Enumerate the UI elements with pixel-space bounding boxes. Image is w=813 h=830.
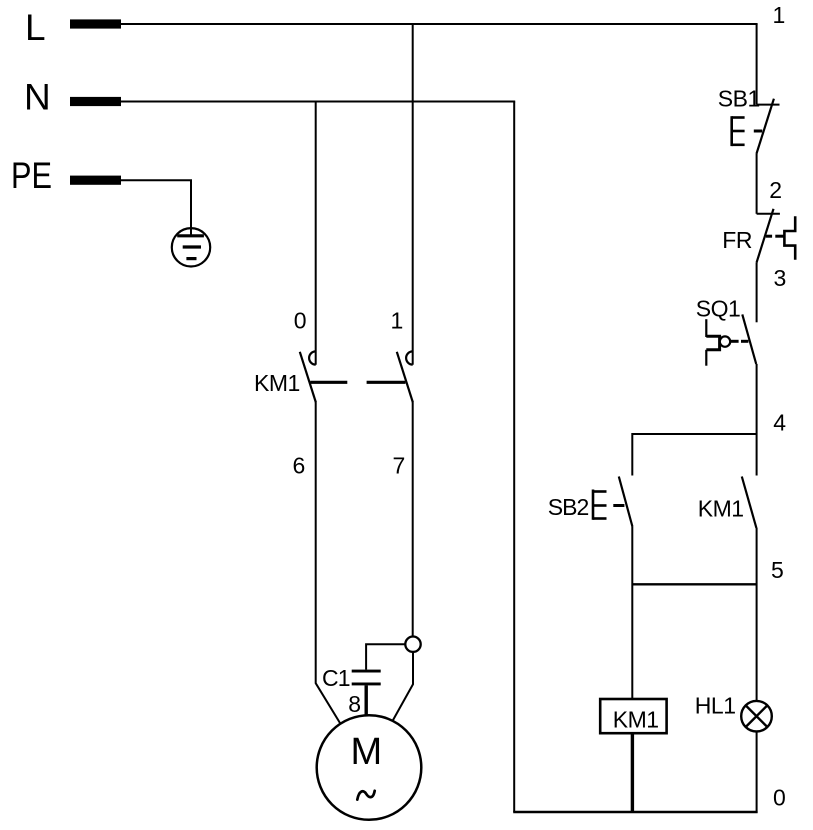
svg-text:L: L	[25, 7, 46, 48]
svg-text:SB1: SB1	[718, 86, 760, 112]
svg-text:8: 8	[348, 691, 361, 717]
svg-text:KM1: KM1	[613, 707, 659, 733]
terminal bar L	[70, 19, 121, 28]
svg-text:0: 0	[773, 785, 786, 811]
svg-text:1: 1	[773, 2, 786, 28]
wire bottom bus	[513, 811, 757, 813]
wire N bus	[121, 101, 515, 103]
contactor KM1 main contact left arc	[309, 351, 316, 364]
thermal relay FR heater element	[784, 216, 795, 260]
wire L bus to contact pole 1	[412, 24, 414, 365]
svg-text:3: 3	[774, 265, 787, 291]
wire capacitor to motor	[365, 685, 368, 715]
svg-text:6: 6	[293, 453, 306, 479]
svg-text:SB2: SB2	[548, 494, 589, 520]
svg-text:C1: C1	[322, 665, 350, 691]
svg-text:7: 7	[393, 453, 406, 479]
mechanical linkage dashes	[310, 381, 405, 384]
wire contact left to motor	[316, 402, 341, 723]
svg-text:N: N	[24, 76, 51, 117]
pushbutton SB1 NC contact	[757, 99, 780, 154]
wire N bus down to bottom bus	[513, 102, 515, 813]
wire aux contact to lamp	[756, 528, 758, 701]
node junction circle	[405, 637, 420, 652]
thermal relay FR NC contact	[757, 209, 780, 263]
svg-text:2: 2	[769, 177, 782, 203]
wire L bus	[121, 23, 758, 25]
thermal relay FR link dashes	[766, 235, 785, 238]
svg-text:PE: PE	[11, 155, 52, 196]
pushbutton SB2 actuator	[593, 490, 624, 520]
wire SQ1 to node 4 and aux contact	[756, 364, 758, 476]
wire N bus to contact pole 0	[315, 102, 317, 365]
svg-text:SQ1: SQ1	[696, 296, 741, 322]
wire contact right to node	[412, 402, 414, 636]
pushbutton SB1 actuator	[732, 116, 763, 146]
coil KM1	[600, 699, 666, 733]
contactor KM1 main contact left blade	[300, 352, 316, 403]
capacitor C1	[352, 670, 381, 686]
svg-text:4: 4	[773, 410, 786, 436]
wire FR to SQ1	[756, 262, 758, 322]
wire PE to earth	[121, 180, 191, 237]
contactor KM1 main contact right arc	[406, 351, 413, 364]
svg-text:HL1: HL1	[695, 693, 736, 719]
terminal bar N	[70, 97, 121, 106]
terminal bar PE	[70, 176, 121, 185]
wire node to capacitor	[366, 644, 405, 669]
svg-text:KM1: KM1	[254, 370, 300, 396]
wire L bus to SB1	[756, 24, 758, 105]
svg-text:5: 5	[771, 557, 784, 583]
wire node 4 branch	[632, 434, 756, 476]
wire coil to bottom bus	[631, 733, 634, 812]
svg-text:FR: FR	[722, 227, 752, 253]
svg-text:KM1: KM1	[698, 495, 744, 521]
earth symbol	[172, 228, 210, 266]
motor M1 circle	[317, 715, 422, 820]
pushbutton SB2 NO contact blade	[619, 477, 633, 527]
limit switch SQ1 contact blade	[742, 314, 756, 364]
contactor KM1 aux contact blade	[742, 477, 757, 529]
limit switch SQ1 actuator	[706, 319, 748, 366]
wire SB2 to coil	[631, 527, 633, 699]
svg-text:M: M	[351, 731, 383, 773]
contactor KM1 main contact right blade	[397, 352, 413, 403]
wire node 5	[632, 583, 756, 585]
wire lamp to bottom bus	[756, 732, 758, 814]
lamp HL1	[741, 701, 772, 732]
motor AC tilde	[357, 791, 374, 800]
svg-text:1: 1	[391, 308, 404, 334]
svg-text:0: 0	[294, 308, 307, 334]
wire node to motor	[393, 652, 413, 721]
wire SB1 to FR	[756, 153, 758, 214]
